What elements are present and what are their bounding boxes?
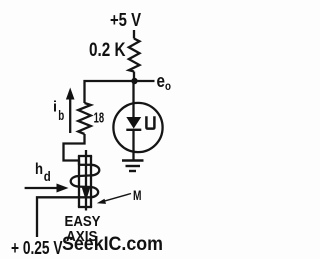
winding crossing B xyxy=(79,174,91,177)
winding exit wire to +0.25V xyxy=(37,197,91,237)
winding crossing A xyxy=(79,164,91,166)
magnetization arrow M shaft xyxy=(85,150,87,211)
node eo junction dot xyxy=(131,78,137,84)
svg-text:+ 0.25 V: + 0.25 V xyxy=(11,238,63,258)
magnetic film strip bottom edge xyxy=(78,206,92,208)
winding step at strip left xyxy=(78,161,80,165)
diode D1 triangle xyxy=(126,117,141,129)
svg-text:e: e xyxy=(157,70,166,91)
drive field arrow h_d xyxy=(25,187,59,189)
wire R1 to node eo xyxy=(133,72,135,82)
label M pointer arrowhead xyxy=(97,199,106,204)
wire node to diode xyxy=(132,81,134,117)
svg-text:SeekIC.com: SeekIC.com xyxy=(62,234,163,255)
wire diode to ground xyxy=(132,130,134,161)
winding arc left xyxy=(71,176,79,187)
resistor R1 0.2K zigzag xyxy=(129,39,140,72)
label M pointer line xyxy=(100,194,131,203)
svg-text:+5 V: +5 V xyxy=(110,10,141,30)
magnetization arrow M head xyxy=(82,188,90,202)
wire R2 to winding staircase xyxy=(64,134,85,161)
winding arc right 2 xyxy=(91,187,98,197)
svg-text:d: d xyxy=(44,168,51,184)
wire node left to R2 corner xyxy=(85,81,135,103)
ground xyxy=(122,159,144,161)
wire +5V to R1 xyxy=(133,30,135,39)
current arrow i_b xyxy=(69,97,71,133)
diode circle U1 xyxy=(113,103,162,152)
winding crossing C xyxy=(79,185,91,188)
svg-text:M: M xyxy=(133,187,142,203)
wire node to eo terminal xyxy=(135,80,155,82)
magnetic film strip top edge xyxy=(78,155,92,157)
svg-text:h: h xyxy=(35,161,43,178)
resistor R2 18 zigzag xyxy=(78,103,91,134)
svg-text:0.2 K: 0.2 K xyxy=(89,40,126,61)
magnetic film strip right edge xyxy=(90,156,92,207)
magnetic film strip left edge xyxy=(78,156,80,207)
svg-text:18: 18 xyxy=(94,109,105,126)
winding arc right 1 xyxy=(91,165,99,176)
svg-text:b: b xyxy=(58,107,64,123)
diode cathode bar xyxy=(126,129,141,131)
svg-text:i: i xyxy=(53,99,57,116)
lamp element u-shape xyxy=(146,116,154,128)
svg-text:o: o xyxy=(165,79,171,93)
